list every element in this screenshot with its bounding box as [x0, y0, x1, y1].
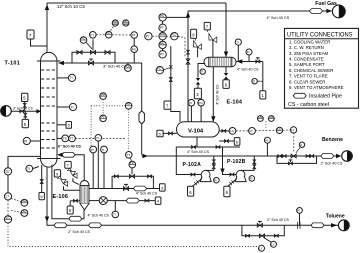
wire CW return from E-104 to box 2: [196, 64, 205, 89]
instrument PI column left: [23, 137, 40, 144]
svg-text:LAH: LAH: [258, 115, 263, 119]
valve check discharge B: [253, 165, 256, 169]
svg-text:PG: PG: [132, 47, 137, 51]
instrument LT drum: [236, 127, 255, 134]
instrument TAL: [100, 115, 107, 122]
tag box 7 vent flare with PSV: [204, 22, 217, 57]
tag box 6 drum: [234, 138, 240, 146]
column trays (dashed): [41, 70, 57, 148]
reboiler E-106 body: [80, 181, 89, 210]
instrument FC: [80, 36, 87, 43]
instrument LE: [4, 168, 11, 175]
wire FY to PC diagonal: [86, 42, 92, 49]
svg-text:LY: LY: [259, 247, 262, 251]
instrument LAL drum: [268, 115, 274, 122]
valve gate benzene 4: [310, 155, 314, 158]
svg-text:9. VENT TO ATMOSPHERE: 9. VENT TO ATMOSPHERE: [289, 85, 344, 90]
valve gate toluene bypass left: [246, 234, 250, 237]
svg-text:PAH: PAH: [113, 20, 118, 23]
svg-text:LY: LY: [291, 128, 294, 132]
instrument LG: [229, 127, 236, 134]
valve gate toluene bypass right: [274, 234, 278, 237]
insulated hexagon on reboiler feed: [69, 216, 82, 221]
svg-text:PT: PT: [132, 33, 136, 37]
legend insulated pipe symbol: [293, 93, 342, 99]
svg-text:PI: PI: [265, 138, 268, 142]
instrument LAL: [11, 209, 28, 216]
svg-text:TAH: TAH: [100, 93, 105, 97]
instrument TI bottom left: [26, 165, 39, 172]
wire steam bypass loop: [112, 176, 153, 188]
valve gate on drain: [40, 180, 43, 184]
pump P-102A: [200, 170, 214, 181]
wire dashed TT to TC: [75, 109, 128, 151]
tag box 7 at E-106 PSV B: [65, 161, 71, 168]
instrument TI reboiler tap: [95, 135, 102, 142]
wire suction drop pump B: [223, 147, 237, 175]
instrument PI top: [105, 31, 112, 38]
instrument stack PT: [159, 21, 166, 31]
wire bottoms to toluene line: [47, 167, 341, 225]
valve globe benzene bypass: [289, 160, 293, 165]
insulated hexagon on toluene line left: [54, 223, 67, 228]
tag box 3 steam: [160, 184, 166, 191]
instrument stack PT low: [159, 49, 166, 58]
wire FC to valve diagonal: [162, 68, 169, 71]
instrument alarm pair PAH PAL: [112, 20, 129, 26]
svg-text:TT: TT: [126, 153, 130, 157]
insulated hexagon condensate: [126, 198, 139, 203]
instrument LV positioner: [259, 245, 265, 251]
svg-text:Benzene: Benzene: [322, 137, 343, 143]
svg-text:4" Sch 40 CS: 4" Sch 40 CS: [88, 213, 110, 217]
wire condensate to box 4: [107, 200, 155, 202]
svg-text:3. 255 PSIA STEAM: 3. 255 PSIA STEAM: [289, 51, 328, 56]
instrument LC drum: [255, 127, 282, 134]
valve main toluene line: [257, 221, 262, 227]
svg-text:PAL: PAL: [123, 20, 128, 23]
svg-text:PIC: PIC: [171, 33, 176, 37]
svg-text:TAL: TAL: [100, 115, 105, 119]
valve gate reflux bypass right: [105, 50, 110, 54]
valve with stem on CW line: [256, 58, 260, 63]
svg-text:TE: TE: [63, 137, 67, 141]
column T-101 shell: [37, 52, 61, 167]
svg-text:TC: TC: [126, 102, 130, 106]
valve globe reflux main: [88, 59, 93, 65]
instrument TI on CW supply: [252, 79, 263, 84]
svg-text:3" Sch 40 CS: 3" Sch 40 CS: [103, 64, 127, 69]
node benzene off-page connector: [342, 151, 353, 162]
wire CW supply from box 1: [236, 62, 262, 91]
svg-text:PI: PI: [146, 35, 149, 39]
instrument circles on reboiler lines PI: [90, 146, 97, 188]
wire dotted temperature signals: [91, 99, 125, 146]
wire benzene bypass: [277, 156, 317, 163]
wire vent riser to box: [169, 46, 172, 101]
legend utility connections box: [285, 28, 359, 108]
flow arrow discharge header: [143, 154, 148, 158]
valve gate feed: [20, 110, 24, 113]
wire overhead vapor line 12in: [47, 3, 226, 57]
svg-text:P-102B: P-102B: [227, 159, 246, 165]
svg-text:TI: TI: [70, 76, 73, 80]
instrument LC: [4, 216, 11, 223]
insulated hexagon on return: [62, 152, 75, 157]
wire toluene bypass loop: [242, 225, 284, 236]
svg-text:UTILITY CONNECTIONS: UTILITY CONNECTIONS: [287, 31, 353, 38]
flow arrow toluene: [331, 223, 337, 227]
wire reboiler feed line: [52, 165, 84, 219]
wire pump A drain: [193, 179, 202, 187]
condenser E-104 body: [204, 57, 236, 67]
instrument PT top: [131, 32, 138, 39]
valve gate suction A: [192, 146, 196, 149]
insulated hexagon steam line: [133, 186, 146, 191]
svg-text:4" Sch 40 CS: 4" Sch 40 CS: [187, 150, 210, 154]
svg-text:TT: TT: [70, 137, 74, 141]
svg-text:LAL: LAL: [21, 209, 26, 213]
instrument TI upper right of column: [57, 74, 76, 81]
wire steam line into E-106 left: [64, 189, 81, 191]
node toluene off-page connector: [338, 220, 349, 231]
valve control LV benzene: [291, 133, 296, 158]
wire dashed LT to LC: [7, 200, 9, 216]
insulated hexagon benzene: [321, 154, 334, 159]
valve gate benzene 2: [282, 155, 286, 158]
wire E-104 drain to box 6: [224, 67, 228, 80]
instrument PCV below reflux line: [125, 63, 132, 71]
instrument stack PAH: [159, 32, 166, 40]
legend items: [289, 39, 344, 90]
instrument PG above drum 2: [198, 99, 205, 121]
svg-text:TI: TI: [253, 79, 256, 83]
svg-text:2" Sch 40 CS: 2" Sch 40 CS: [68, 230, 91, 234]
svg-text:PG: PG: [160, 14, 165, 18]
svg-text:PCV: PCV: [125, 64, 131, 68]
svg-text:PI: PI: [24, 139, 27, 143]
valve gate benzene 1: [278, 155, 282, 158]
svg-text:PI: PI: [214, 178, 217, 182]
tag box 6 under E-104: [223, 80, 229, 89]
svg-text:PT: PT: [160, 26, 164, 30]
svg-text:LC: LC: [277, 127, 281, 131]
tag box 9 vent atm with PSV: [191, 29, 202, 57]
flow arrow benzene: [336, 154, 341, 158]
wire discharge header to benzene: [142, 155, 337, 157]
flow arrow up overhead: [45, 4, 49, 10]
tag box 9 near drum: [164, 101, 180, 122]
wire pump suction header: [176, 137, 240, 147]
instrument TI on reboiler line: [101, 146, 108, 188]
relief valve PSV A on steam line: [58, 176, 68, 190]
steam trap circle-X: [99, 197, 107, 205]
svg-text:PI: PI: [189, 101, 192, 105]
svg-text:LI: LI: [300, 143, 302, 147]
instrument PG above drum: [188, 99, 195, 121]
svg-text:7. VENT TO FLARE: 7. VENT TO FLARE: [289, 74, 328, 79]
svg-text:LAL: LAL: [269, 115, 274, 119]
instrument TI at E-104 left: [200, 69, 205, 74]
valve gate suction pump A: [191, 173, 195, 176]
instrument stack PG top: [159, 14, 188, 21]
tag box 5 below feed: [22, 111, 28, 127]
svg-text:Fuel Gas: Fuel Gas: [315, 1, 337, 7]
flow arrow down into E-104: [224, 52, 228, 58]
valve gate at drum sample: [169, 132, 173, 135]
wire drum drain to box 6: [219, 140, 234, 142]
tag box 6 pump A: [188, 186, 194, 196]
wire discharge riser B: [253, 156, 255, 170]
tag box 2: [194, 88, 201, 98]
wire dotted alarms link: [265, 122, 267, 129]
valve control TV steam: [129, 168, 134, 178]
valve check discharge A: [212, 165, 215, 169]
flow arrow bottoms down: [45, 217, 49, 223]
instrument LY toluene: [271, 241, 277, 247]
valve gate steam bypass right: [148, 175, 152, 178]
wire condensate line with steam trap: [89, 200, 99, 202]
wire E-106 drain to box 8: [70, 201, 80, 206]
svg-text:6" Sch 40 CS: 6" Sch 40 CS: [58, 145, 81, 149]
tag box 9 at E-106 PSV A: [54, 170, 60, 177]
tag box 4 condensate: [155, 197, 161, 204]
instrument PI pump A: [214, 177, 220, 183]
svg-text:Toluene: Toluene: [326, 214, 345, 220]
svg-text:Insulated Pipe: Insulated Pipe: [309, 93, 342, 99]
reflux drum V-104: [177, 122, 220, 137]
wire reflux valve bypass loop: [72, 52, 115, 63]
instrument LAH drum: [258, 115, 264, 122]
svg-text:LAH: LAH: [21, 199, 26, 203]
instrument alarm right of stack: [171, 33, 178, 40]
svg-text:PC: PC: [81, 36, 85, 40]
instrument stack PI: [159, 40, 166, 49]
svg-text:PC: PC: [106, 31, 110, 35]
svg-text:PT: PT: [160, 53, 164, 57]
instrument PI mid: [145, 33, 152, 40]
svg-text:4" Sch 40 CS: 4" Sch 40 CS: [237, 68, 259, 72]
svg-text:4" Sch 40 CS: 4" Sch 40 CS: [267, 16, 290, 20]
instrument FI on vent line: [246, 49, 252, 62]
svg-text:TI: TI: [27, 167, 30, 171]
wire steam main line to box 3: [89, 188, 160, 190]
svg-text:2" Sch 40 CS: 2" Sch 40 CS: [267, 218, 290, 222]
svg-text:4" Sch 40 CS: 4" Sch 40 CS: [136, 191, 158, 195]
tag box 6 drain: [39, 193, 44, 200]
instrument TE TT pair on column: [57, 135, 75, 142]
instrument positioner benzene: [296, 142, 305, 153]
svg-text:TI: TI: [71, 105, 74, 109]
wire column drain to box 6: [41, 165, 43, 193]
valve gate suction B: [216, 146, 220, 149]
wire level bridle: [8, 156, 41, 192]
svg-text:PAL: PAL: [160, 41, 166, 45]
svg-text:E-104: E-104: [227, 99, 243, 105]
svg-text:TI: TI: [236, 40, 239, 44]
svg-text:LC: LC: [6, 216, 11, 220]
insulated hexagon on toluene line mid: [88, 223, 101, 228]
flow arrow return into column: [57, 153, 62, 157]
svg-text:FI: FI: [297, 209, 300, 213]
wire reboiler vapor return: [61, 155, 85, 181]
instrument TAH: [100, 93, 107, 100]
valve gate drum drain: [225, 140, 229, 143]
wire reflux line to column top: [59, 63, 142, 155]
svg-text:LG: LG: [230, 129, 235, 133]
svg-text:4. CONDENSATE: 4. CONDENSATE: [289, 57, 324, 62]
instrument LY drum: [283, 127, 297, 133]
node fuel gas off-page connector: [332, 5, 345, 18]
wire pump B drain: [228, 179, 237, 187]
insulated capsule on reflux riser: [139, 111, 144, 124]
instrument PI pump B: [249, 176, 255, 182]
instrument TC upper: [125, 102, 132, 109]
flow arrow suction B: [220, 169, 224, 174]
svg-text:5. SAMPLE PORT: 5. SAMPLE PORT: [289, 62, 325, 67]
svg-text:8. CLEAR SEWER: 8. CLEAR SEWER: [289, 79, 325, 84]
svg-text:2" Sch 40 CS: 2" Sch 40 CS: [321, 161, 344, 165]
svg-text:E-106: E-106: [53, 194, 69, 200]
instrument TT reboiler: [126, 152, 133, 162]
valve gate above feed: [23, 103, 26, 107]
svg-text:2. C. W. RETURN: 2. C. W. RETURN: [289, 45, 324, 50]
svg-text:FI: FI: [247, 50, 250, 54]
instrument TI lower right of column: [57, 103, 77, 110]
tag box 7 on column top: [27, 30, 47, 46]
wire fuel gas vent line: [188, 11, 332, 122]
svg-text:FY: FY: [90, 33, 94, 37]
wire dotted LC signal to toluene valve: [8, 223, 259, 247]
instrument PI header: [264, 137, 270, 156]
valve control LV toluene: [259, 234, 271, 242]
svg-text:LT: LT: [6, 195, 10, 199]
valve gate reflux bypass left: [77, 50, 82, 54]
flow arrow into drum: [211, 116, 215, 122]
valve gate benzene 3: [306, 155, 310, 158]
svg-text:T-101: T-101: [5, 61, 21, 67]
orifice flow element toluene: [298, 222, 301, 229]
wire LG line from drum right: [219, 130, 229, 132]
valve gate discharge A: [212, 160, 215, 164]
flow arrow fuel gas: [326, 9, 331, 13]
flow arrow reflux into column: [58, 61, 64, 65]
valve gate condensate: [145, 199, 149, 202]
svg-text:PG: PG: [198, 101, 203, 105]
wire mid vertical tap: [97, 141, 99, 188]
wire feed line to column: [11, 110, 37, 112]
valve gate on vent riser: [169, 78, 172, 82]
tag box 5 sample at drum: [157, 130, 177, 137]
svg-text:6. CHEMICAL SEWER: 6. CHEMICAL SEWER: [289, 68, 333, 73]
relief valve PSV B to flare: [68, 168, 79, 184]
svg-text:TI: TI: [201, 70, 204, 74]
instrument FY: [90, 32, 97, 39]
wire condensate E-104 to V-104: [212, 67, 214, 122]
svg-text:1. COOLING WATER: 1. COOLING WATER: [289, 39, 330, 44]
svg-text:TI: TI: [102, 148, 105, 152]
svg-text:LE: LE: [6, 170, 10, 174]
insulated hexagon fuel gas: [309, 9, 322, 14]
instrument TI bottoms line: [112, 201, 119, 218]
valve globe steam main: [123, 184, 128, 190]
tag box 5 above feed: [22, 93, 28, 111]
svg-text:PAH: PAH: [160, 33, 166, 37]
svg-text:LT: LT: [250, 129, 253, 133]
node feed off-page connector: [1, 106, 12, 117]
valve gate LG: [222, 129, 226, 132]
svg-text:LY: LY: [271, 243, 274, 247]
instrument FI toluene: [297, 208, 303, 226]
svg-text:TI: TI: [96, 136, 99, 140]
svg-text:PI: PI: [250, 177, 253, 181]
tag box 5 right of column: [57, 122, 72, 129]
instrument LT: [4, 193, 11, 200]
instrument TC: [129, 161, 136, 168]
instrument TI above CW line: [235, 39, 241, 62]
wire discharge riser A: [213, 156, 215, 170]
instrument FC lower: [156, 67, 163, 74]
svg-text:P-102A: P-102A: [183, 162, 202, 168]
valve control FV reflux: [90, 39, 95, 54]
valve gate on E-106 drain: [74, 199, 78, 202]
svg-text:V-104: V-104: [188, 128, 204, 134]
flow arrow vent up: [186, 12, 190, 18]
pump P-102B: [235, 170, 254, 181]
svg-text:PI: PI: [91, 148, 94, 152]
flow arrow CW into E-104: [237, 59, 242, 63]
tag box 1: [260, 91, 266, 99]
valve gate below feed: [24, 113, 27, 117]
valve gate steam bypass left: [114, 175, 118, 178]
valve gate discharge B: [253, 160, 256, 164]
tag box 6 pump B: [224, 186, 230, 196]
insulated hexagon toluene right: [311, 223, 324, 228]
wire suction drop pump A: [176, 147, 201, 175]
tag box 8: [67, 206, 73, 214]
svg-text:TI: TI: [113, 213, 116, 217]
valve tick on vent riser upper: [187, 50, 190, 54]
valve gate suction pump B: [230, 173, 234, 176]
instrument LAH: [11, 199, 28, 207]
wire signal dashes pressure loop: [96, 26, 185, 57]
valve control vent PV: [186, 59, 190, 64]
svg-text:CS - carbon steel: CS - carbon steel: [288, 102, 329, 108]
svg-text:4" Sch 40 CS: 4" Sch 40 CS: [215, 84, 219, 105]
flow arrow feed into column: [36, 109, 41, 113]
svg-text:12" Sch 10 CS: 12" Sch 10 CS: [57, 4, 85, 9]
instrument PG under PT: [131, 38, 138, 63]
svg-text:7: 7: [29, 33, 32, 38]
